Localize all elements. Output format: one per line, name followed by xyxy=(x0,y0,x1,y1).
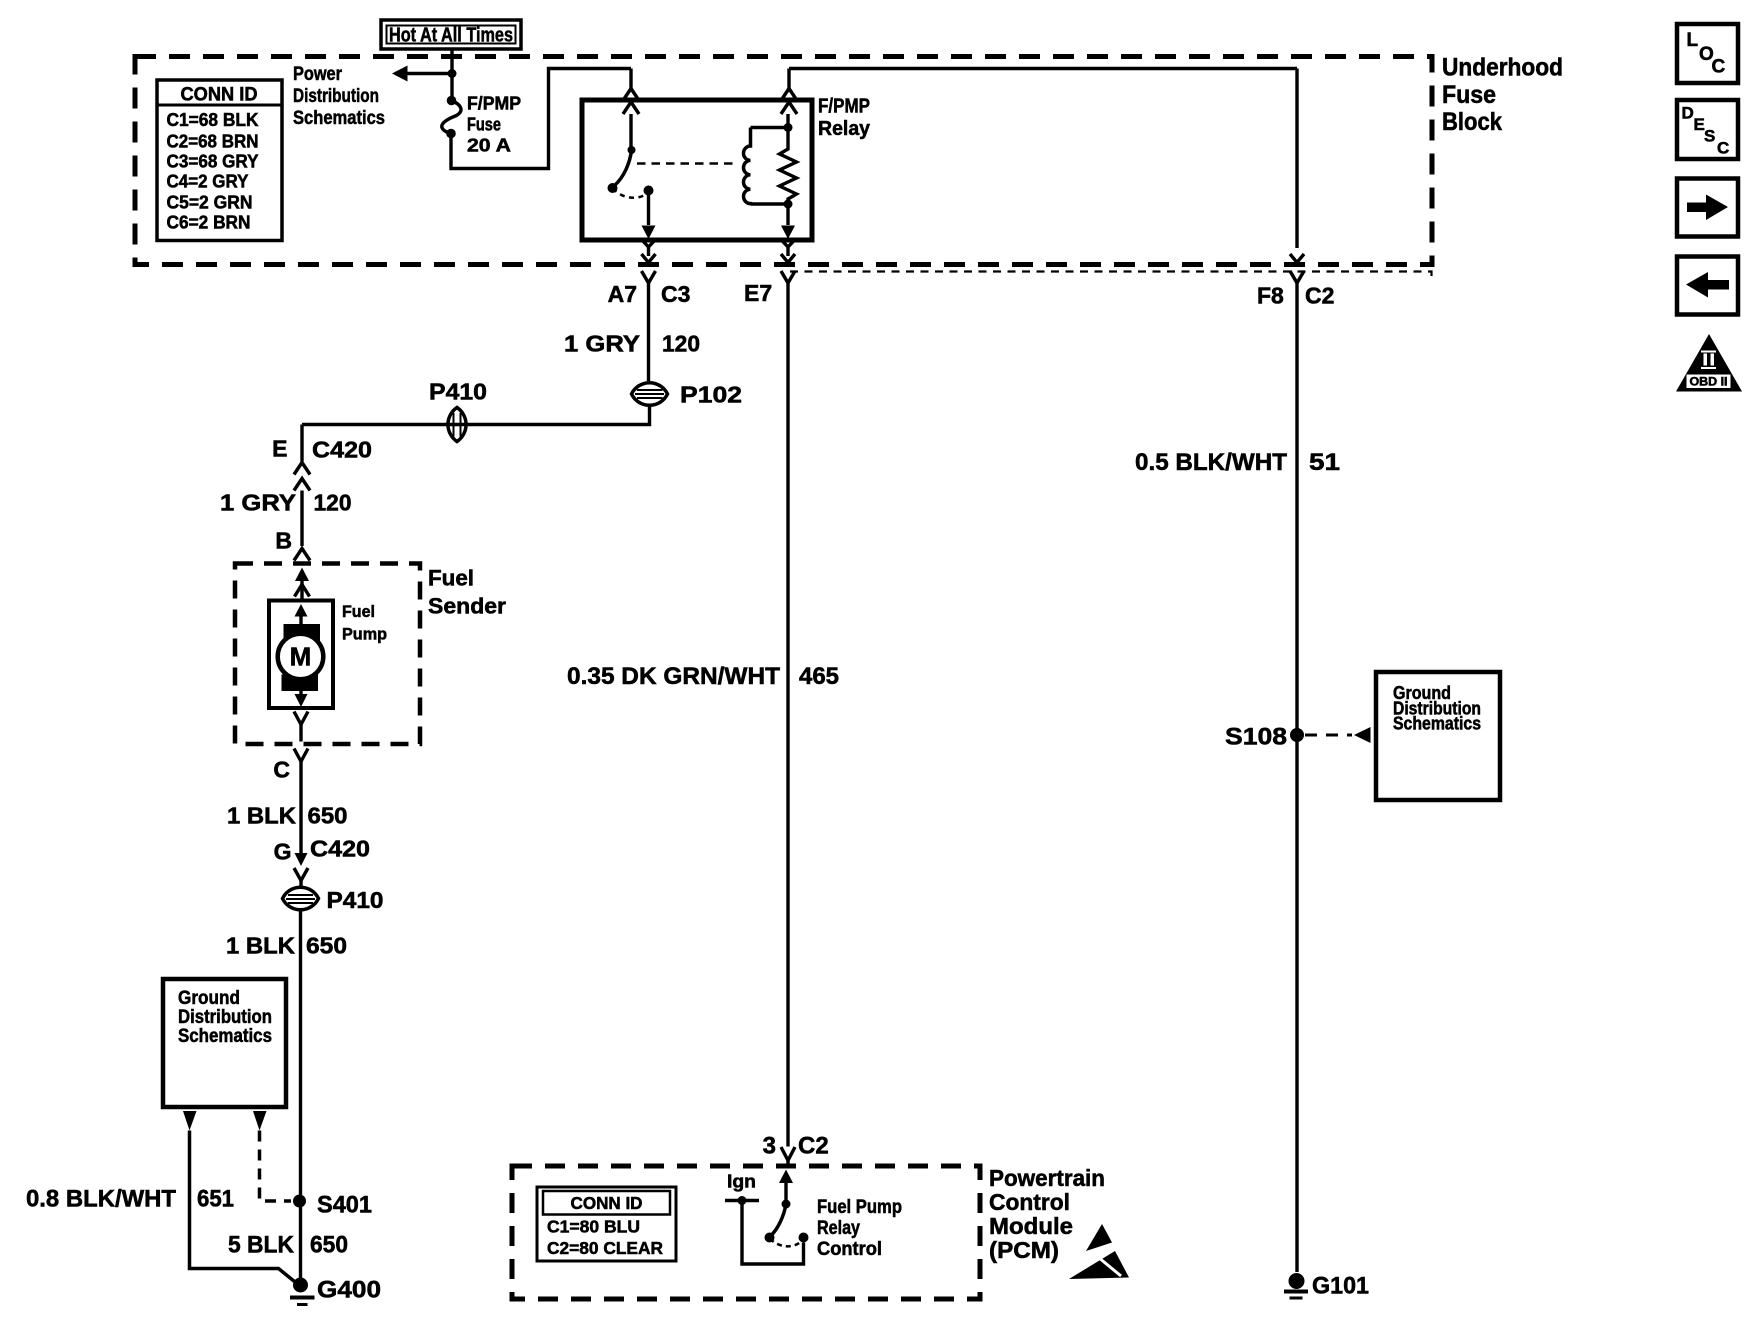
svg-text:Hot At All Times: Hot At All Times xyxy=(389,25,513,47)
svg-text:1 BLK: 1 BLK xyxy=(227,803,296,829)
svg-text:B: B xyxy=(275,528,292,554)
svg-text:C2: C2 xyxy=(798,1133,829,1160)
svg-text:C1=80 BLU: C1=80 BLU xyxy=(547,1217,640,1237)
svg-text:Underhood: Underhood xyxy=(1442,54,1563,82)
svg-text:650: 650 xyxy=(306,933,347,959)
svg-text:G400: G400 xyxy=(317,1277,381,1304)
svg-text:C420: C420 xyxy=(312,437,372,463)
svg-text:Fuse: Fuse xyxy=(467,115,501,135)
svg-text:20 A: 20 A xyxy=(467,136,511,156)
svg-text:Schematics: Schematics xyxy=(178,1025,272,1047)
svg-text:Power: Power xyxy=(293,63,342,85)
svg-text:120: 120 xyxy=(662,331,700,357)
svg-text:Fuse: Fuse xyxy=(1442,81,1496,109)
svg-text:C: C xyxy=(1717,139,1729,158)
svg-text:0.8 BLK/WHT: 0.8 BLK/WHT xyxy=(26,1186,176,1213)
svg-text:1 BLK: 1 BLK xyxy=(226,933,295,959)
svg-text:5 BLK: 5 BLK xyxy=(228,1232,295,1259)
svg-text:1 GRY: 1 GRY xyxy=(564,331,640,357)
svg-text:650: 650 xyxy=(310,1232,348,1259)
svg-text:F/PMP: F/PMP xyxy=(467,94,521,114)
svg-text:C1=68 BLK: C1=68 BLK xyxy=(167,110,259,130)
svg-text:Powertrain: Powertrain xyxy=(989,1165,1105,1191)
svg-text:51: 51 xyxy=(1309,449,1340,476)
svg-text:OBD II: OBD II xyxy=(1690,377,1728,389)
svg-text:Ign: Ign xyxy=(727,1172,756,1192)
svg-text:3: 3 xyxy=(763,1133,776,1160)
svg-text:0.5 BLK/WHT: 0.5 BLK/WHT xyxy=(1135,449,1287,476)
svg-text:Relay: Relay xyxy=(818,118,871,140)
svg-text:S: S xyxy=(1704,127,1715,146)
svg-text:Fuel: Fuel xyxy=(428,566,474,591)
svg-text:C3=68 GRY: C3=68 GRY xyxy=(167,152,259,172)
svg-text:Schematics: Schematics xyxy=(293,107,385,129)
svg-text:CONN ID: CONN ID xyxy=(571,1193,643,1213)
svg-text:E: E xyxy=(272,436,287,462)
svg-text:F8: F8 xyxy=(1257,283,1284,309)
svg-text:Distribution: Distribution xyxy=(293,85,379,107)
svg-text:C5=2 GRN: C5=2 GRN xyxy=(167,193,253,213)
svg-text:Module: Module xyxy=(989,1213,1073,1239)
svg-text:C: C xyxy=(273,757,290,783)
svg-text:651: 651 xyxy=(197,1186,234,1213)
svg-text:Fuel: Fuel xyxy=(342,602,375,621)
svg-text:F/PMP: F/PMP xyxy=(818,96,870,118)
svg-text:C2: C2 xyxy=(1305,283,1334,309)
svg-text:M: M xyxy=(290,642,312,672)
svg-text:P410: P410 xyxy=(327,887,384,913)
svg-text:E7: E7 xyxy=(744,280,772,306)
svg-text:Schematics: Schematics xyxy=(1393,714,1481,734)
svg-text:A7: A7 xyxy=(608,281,637,307)
svg-text:C2=68 BRN: C2=68 BRN xyxy=(167,132,259,152)
svg-text:Sender: Sender xyxy=(428,594,506,619)
svg-text:D: D xyxy=(1682,104,1694,123)
svg-text:C6=2 BRN: C6=2 BRN xyxy=(167,213,251,233)
svg-text:S401: S401 xyxy=(317,1192,372,1219)
svg-text:Block: Block xyxy=(1442,108,1502,136)
svg-text:G: G xyxy=(274,839,292,865)
svg-text:C: C xyxy=(1712,57,1726,78)
svg-text:Pump: Pump xyxy=(342,625,387,644)
svg-text:650: 650 xyxy=(308,803,348,829)
svg-text:S108: S108 xyxy=(1225,724,1287,751)
svg-text:Fuel Pump: Fuel Pump xyxy=(817,1197,902,1218)
svg-text:C2=80 CLEAR: C2=80 CLEAR xyxy=(547,1238,663,1258)
svg-text:P102: P102 xyxy=(680,382,742,408)
svg-text:G101: G101 xyxy=(1312,1273,1369,1300)
svg-text:1 GRY: 1 GRY xyxy=(220,490,296,516)
svg-text:Control: Control xyxy=(989,1189,1070,1215)
svg-text:C4=2 GRY: C4=2 GRY xyxy=(167,172,249,192)
svg-text:0.35 DK GRN/WHT: 0.35 DK GRN/WHT xyxy=(567,663,780,690)
svg-text:P410: P410 xyxy=(429,379,487,405)
svg-text:Relay: Relay xyxy=(817,1218,860,1239)
svg-text:Control: Control xyxy=(817,1239,882,1260)
svg-text:C420: C420 xyxy=(310,836,370,862)
svg-text:120: 120 xyxy=(314,490,352,516)
svg-text:CONN ID: CONN ID xyxy=(181,85,258,106)
svg-text:(PCM): (PCM) xyxy=(989,1237,1059,1263)
svg-text:L: L xyxy=(1687,30,1699,51)
svg-text:C3: C3 xyxy=(661,281,690,307)
svg-text:465: 465 xyxy=(799,663,839,690)
